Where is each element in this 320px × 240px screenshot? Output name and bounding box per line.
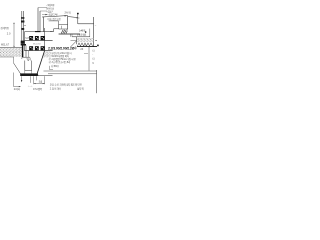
edge marker symbol bbox=[76, 13, 79, 24]
box culvert right wall bbox=[44, 28, 46, 51]
right ground line bbox=[78, 23, 94, 25]
right boundary wall bbox=[93, 17, 95, 47]
box culvert bottom line bbox=[25, 50, 53, 52]
slope toe blob bbox=[34, 73, 38, 76]
right pavement box top bbox=[72, 36, 90, 38]
drop inlet top tick bbox=[28, 60, 29, 62]
right box label dot bbox=[85, 31, 86, 33]
ground bottom thick bbox=[20, 73, 37, 76]
svg-text:설치 외: 설치 외 bbox=[77, 86, 84, 90]
ground line left bbox=[0, 47, 22, 49]
dim extension a bbox=[33, 76, 35, 84]
right pavement box left wall bbox=[76, 37, 78, 44]
guardrail clamp blocks bbox=[21, 17, 24, 30]
top leader line 3 with arrow bbox=[42, 14, 48, 16]
steep slope diagonal bbox=[37, 51, 45, 75]
svg-text:W=0.50: W=0.50 bbox=[33, 43, 41, 45]
inlet to slab connectors bbox=[24, 71, 26, 74]
guardrail post bbox=[22, 11, 24, 41]
crown wall bbox=[67, 16, 69, 30]
svg-text:2% 외: 2% 외 bbox=[65, 11, 71, 15]
dim vertical with down arrow bbox=[21, 76, 23, 81]
dim extension b bbox=[36, 76, 38, 80]
dim arrow bottom-left bbox=[19, 86, 21, 87]
top leader line 2 bbox=[40, 10, 47, 12]
guardrail base plate bbox=[21, 41, 25, 44]
box culvert mid line bbox=[25, 40, 53, 42]
svg-text:잡석(T)형: 잡석(T)형 bbox=[1, 26, 9, 30]
dim line bottom-left bbox=[14, 86, 21, 88]
excavation vertical bbox=[13, 57, 15, 63]
label row 1 dark glyphs bbox=[29, 36, 44, 40]
soil stipple wedge bbox=[43, 51, 50, 57]
footing hatch block bbox=[59, 24, 68, 33]
guardrail side tick bbox=[24, 25, 26, 27]
svg-text:㉣ 측구용 콘크리트 8과: ㉣ 측구용 콘크리트 8과 bbox=[49, 60, 71, 64]
right edge corner mark bbox=[97, 45, 99, 47]
svg-text:--: -- bbox=[95, 25, 97, 27]
dim extension x30.5 bbox=[30, 76, 32, 83]
svg-text:2.2/3.00/2.00/2.2Ø©: 2.2/3.00/2.00/2.2Ø© bbox=[48, 47, 77, 51]
left dimension line bbox=[13, 23, 15, 48]
stipple bottom boundary bbox=[0, 56, 14, 58]
slope triangle lines bbox=[71, 41, 77, 47]
svg-text:0.7 2-뱀쪽: 0.7 2-뱀쪽 bbox=[33, 87, 43, 91]
note row 5 bracket bbox=[50, 66, 54, 70]
channel wall inner bbox=[25, 46, 27, 58]
steps to footing bbox=[50, 24, 59, 31]
svg-text:㉤ 5%수: ㉤ 5%수 bbox=[51, 64, 60, 68]
road surface right of crown bbox=[68, 16, 78, 19]
label row 2 dark glyphs bbox=[29, 46, 44, 50]
box culvert top slab line bbox=[25, 31, 53, 33]
right edge small tick bbox=[95, 40, 97, 42]
svg-text:주)1. 수로, 하천의 경우 별도의 도면: 주)1. 수로, 하천의 경우 별도의 도면 bbox=[50, 83, 82, 87]
right pavement leader vertical bbox=[89, 29, 91, 37]
channel inner step bbox=[28, 51, 30, 57]
dim extension c bbox=[44, 76, 46, 84]
road surface left bbox=[42, 16, 68, 17]
bottom dim line with arrows bbox=[34, 83, 45, 85]
top leader line 1 bbox=[38, 7, 47, 9]
pavement bottom line bbox=[49, 20, 59, 22]
svg-text:2t 이하: 2t 이하 bbox=[14, 87, 21, 91]
berm line lower bbox=[48, 73, 97, 75]
parapet wall lines bbox=[38, 8, 44, 32]
right ground base line bbox=[77, 46, 97, 48]
legend divider vertical bbox=[88, 47, 90, 71]
footing base long line bbox=[59, 33, 80, 35]
legend right column bbox=[92, 48, 95, 65]
channel wall left thick bbox=[22, 44, 24, 57]
dim extension left vertical bbox=[13, 73, 15, 87]
ground bottom thin bbox=[37, 75, 53, 77]
box culvert left wall bbox=[24, 32, 26, 51]
berm line upper bbox=[44, 70, 97, 72]
svg-text:S.P.: S.P. bbox=[25, 38, 29, 40]
subsoil stipple bbox=[0, 48, 22, 57]
channel ledge dark block bbox=[21, 44, 26, 46]
frame right vertical bbox=[96, 70, 98, 93]
right pavement stipple bbox=[77, 38, 93, 42]
svg-text:2. 참조 하며: 2. 참조 하며 bbox=[50, 86, 61, 90]
svg-text:MCL 6.7: MCL 6.7 bbox=[1, 44, 10, 47]
drop inlet box bbox=[25, 61, 32, 71]
channel bottom left bbox=[22, 56, 30, 58]
excavation slope diagonal bbox=[14, 63, 22, 75]
small connectors under base bbox=[69, 34, 71, 37]
svg-text:2.0: 2.0 bbox=[7, 31, 11, 35]
legend dash bbox=[84, 52, 88, 54]
